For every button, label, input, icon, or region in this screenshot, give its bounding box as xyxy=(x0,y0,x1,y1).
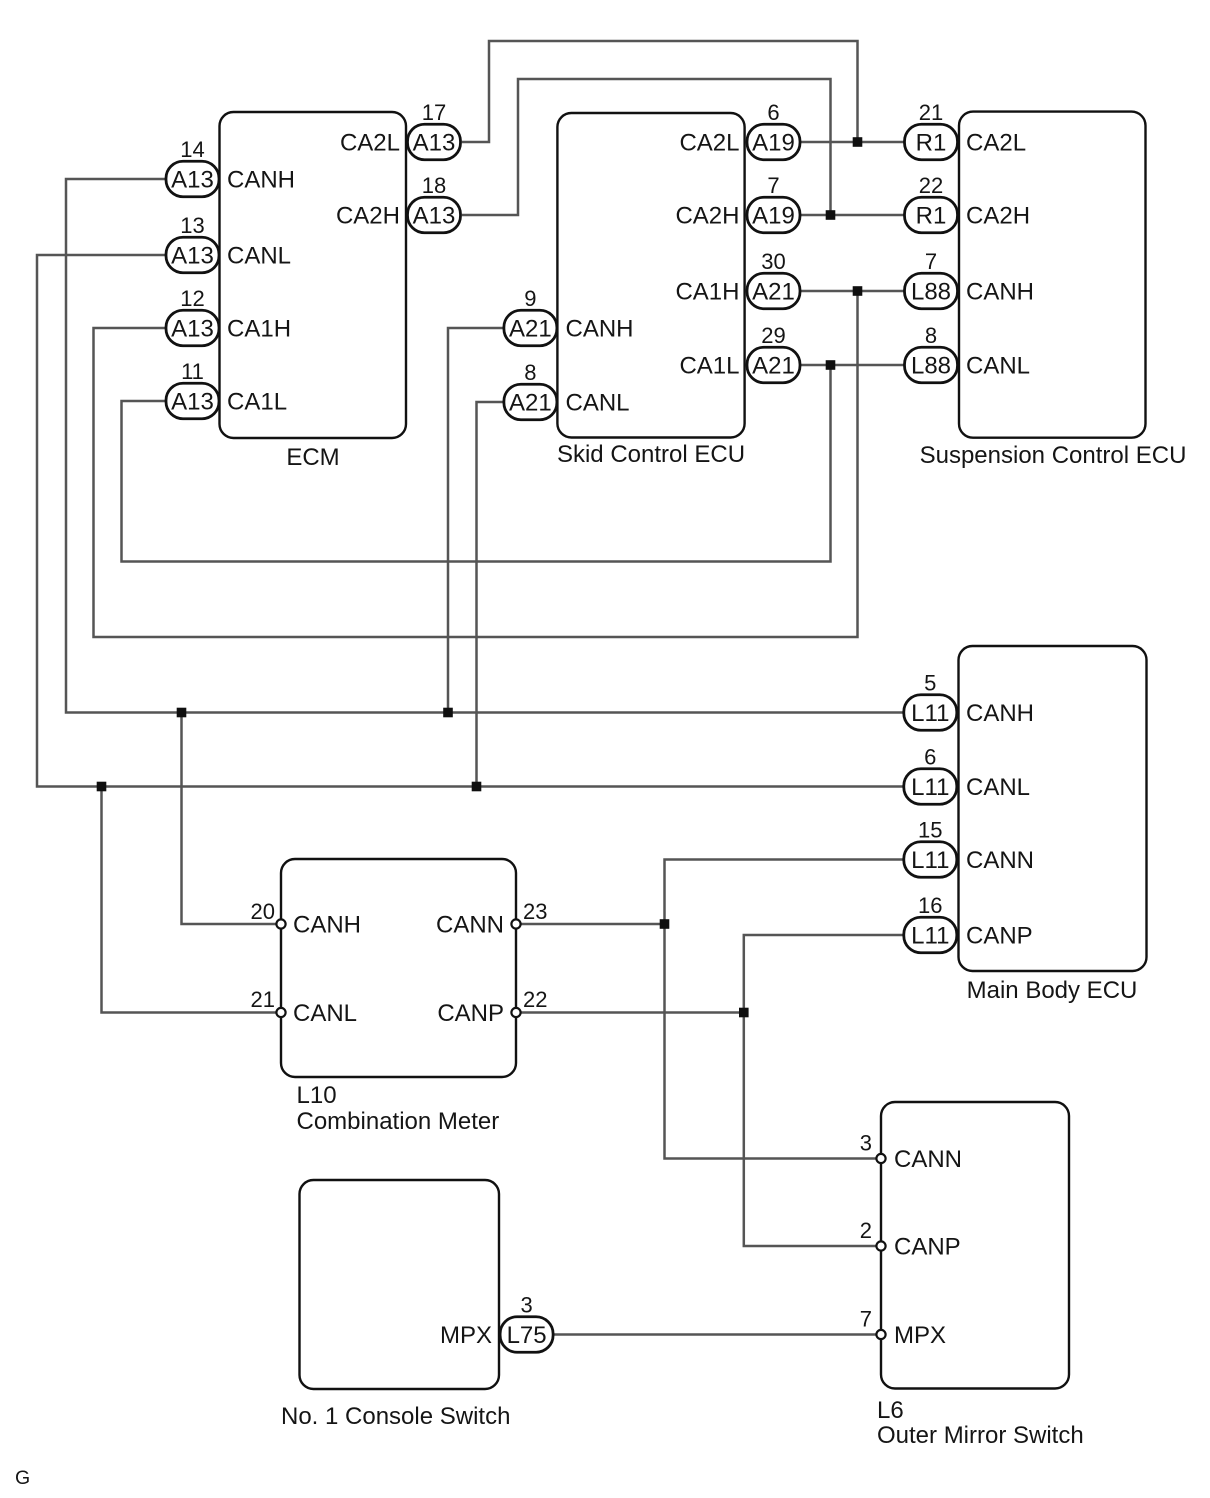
svg-text:CA2L: CA2L xyxy=(679,130,739,157)
svg-text:L6: L6 xyxy=(877,1397,904,1424)
svg-text:21: 21 xyxy=(919,100,943,125)
svg-text:A19: A19 xyxy=(752,130,795,157)
svg-text:3: 3 xyxy=(860,1131,872,1156)
svg-text:CA2H: CA2H xyxy=(675,203,739,230)
svg-text:7: 7 xyxy=(767,173,779,198)
svg-text:6: 6 xyxy=(924,745,936,770)
svg-text:16: 16 xyxy=(918,893,942,918)
svg-text:Suspension Control ECU: Suspension Control ECU xyxy=(920,442,1187,469)
svg-text:6: 6 xyxy=(767,100,779,125)
svg-text:G: G xyxy=(15,1467,30,1489)
svg-text:7: 7 xyxy=(860,1307,872,1332)
svg-text:22: 22 xyxy=(523,987,547,1012)
svg-text:Outer Mirror Switch: Outer Mirror Switch xyxy=(877,1422,1084,1449)
svg-text:A21: A21 xyxy=(752,279,795,306)
svg-text:A13: A13 xyxy=(413,203,456,230)
svg-text:18: 18 xyxy=(422,173,446,198)
svg-text:L11: L11 xyxy=(911,700,949,727)
svg-text:22: 22 xyxy=(919,173,943,198)
svg-text:L11: L11 xyxy=(911,847,949,874)
svg-text:L11: L11 xyxy=(911,774,949,801)
svg-text:Skid Control ECU: Skid Control ECU xyxy=(557,441,745,468)
svg-text:MPX: MPX xyxy=(440,1322,492,1349)
svg-text:23: 23 xyxy=(523,899,547,924)
svg-text:CANL: CANL xyxy=(293,1000,357,1027)
svg-text:CA1L: CA1L xyxy=(227,389,287,416)
svg-text:A13: A13 xyxy=(171,316,214,343)
svg-text:CANP: CANP xyxy=(894,1234,961,1261)
svg-text:CANL: CANL xyxy=(966,353,1030,380)
svg-text:CANH: CANH xyxy=(966,700,1034,727)
svg-text:L88: L88 xyxy=(911,353,951,380)
svg-text:CA2L: CA2L xyxy=(966,130,1026,157)
svg-text:5: 5 xyxy=(924,671,936,696)
svg-text:A13: A13 xyxy=(171,389,214,416)
svg-text:CANP: CANP xyxy=(437,1000,504,1027)
svg-text:CANN: CANN xyxy=(436,912,504,939)
svg-text:Main Body ECU: Main Body ECU xyxy=(967,977,1138,1004)
svg-text:CA1H: CA1H xyxy=(227,316,291,343)
svg-text:CANH: CANH xyxy=(293,912,361,939)
svg-text:21: 21 xyxy=(251,987,275,1012)
svg-text:CANL: CANL xyxy=(566,390,630,417)
svg-text:L11: L11 xyxy=(911,923,949,950)
svg-text:CA1L: CA1L xyxy=(679,353,739,380)
svg-text:7: 7 xyxy=(925,249,937,274)
svg-text:30: 30 xyxy=(761,249,785,274)
svg-text:CANN: CANN xyxy=(966,847,1034,874)
svg-text:L88: L88 xyxy=(911,279,951,306)
svg-text:11: 11 xyxy=(181,359,204,384)
svg-text:CA2H: CA2H xyxy=(966,203,1030,230)
svg-text:CANL: CANL xyxy=(966,774,1030,801)
svg-text:2: 2 xyxy=(860,1218,872,1243)
svg-text:CA2H: CA2H xyxy=(336,203,400,230)
svg-text:CANH: CANH xyxy=(227,167,295,194)
svg-text:20: 20 xyxy=(251,899,275,924)
svg-text:A19: A19 xyxy=(752,203,795,230)
svg-text:15: 15 xyxy=(918,818,942,843)
svg-text:CANL: CANL xyxy=(227,243,291,270)
svg-text:8: 8 xyxy=(925,323,937,348)
svg-text:29: 29 xyxy=(761,323,785,348)
svg-text:3: 3 xyxy=(520,1293,532,1318)
svg-text:CANN: CANN xyxy=(894,1146,962,1173)
svg-text:A21: A21 xyxy=(509,390,552,417)
svg-text:17: 17 xyxy=(422,100,446,125)
svg-text:8: 8 xyxy=(524,360,536,385)
svg-text:CA2L: CA2L xyxy=(340,130,400,157)
svg-text:L10: L10 xyxy=(297,1082,337,1109)
svg-text:13: 13 xyxy=(180,213,204,238)
svg-text:CANH: CANH xyxy=(566,316,634,343)
svg-text:A13: A13 xyxy=(413,130,456,157)
svg-text:L75: L75 xyxy=(507,1322,547,1349)
svg-text:CANH: CANH xyxy=(966,279,1034,306)
svg-text:12: 12 xyxy=(180,286,204,311)
svg-text:A13: A13 xyxy=(171,243,214,270)
svg-text:R1: R1 xyxy=(916,203,947,230)
svg-text:Combination Meter: Combination Meter xyxy=(297,1108,500,1135)
svg-text:CA1H: CA1H xyxy=(675,279,739,306)
svg-text:CANP: CANP xyxy=(966,923,1033,950)
svg-text:No. 1 Console Switch: No. 1 Console Switch xyxy=(281,1403,510,1430)
svg-text:14: 14 xyxy=(180,137,204,162)
svg-text:MPX: MPX xyxy=(894,1322,946,1349)
svg-text:A13: A13 xyxy=(171,167,214,194)
svg-text:R1: R1 xyxy=(916,130,947,157)
svg-text:9: 9 xyxy=(524,286,536,311)
svg-text:A21: A21 xyxy=(509,316,552,343)
svg-text:A21: A21 xyxy=(752,353,795,380)
svg-text:ECM: ECM xyxy=(286,444,339,471)
